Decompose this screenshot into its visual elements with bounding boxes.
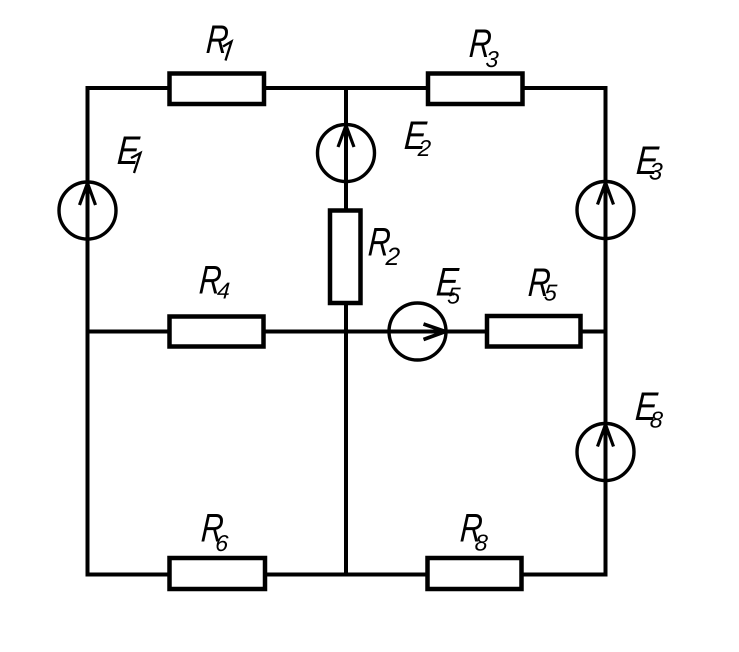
resistor R2 bbox=[330, 211, 361, 304]
svg-text:E: E bbox=[116, 129, 142, 173]
svg-text:5: 5 bbox=[447, 283, 462, 309]
svg-text:8: 8 bbox=[474, 530, 489, 556]
label R6 bbox=[199, 507, 230, 556]
resistor R1 bbox=[170, 74, 265, 105]
wire: top horizontal net bbox=[86, 86, 608, 90]
wire: left vertical branch bbox=[86, 86, 90, 577]
EMF source E2 bbox=[318, 125, 375, 182]
svg-text:5: 5 bbox=[543, 280, 558, 306]
label E5 bbox=[435, 261, 463, 309]
svg-text:3: 3 bbox=[648, 159, 664, 186]
label E3 bbox=[635, 139, 666, 185]
label R3 bbox=[467, 22, 501, 72]
wire: middle vertical branch bbox=[344, 86, 348, 577]
label R1 bbox=[205, 18, 230, 62]
svg-text:2: 2 bbox=[384, 243, 401, 271]
label E8 bbox=[634, 385, 666, 432]
resistor R6 bbox=[170, 558, 266, 589]
wire: middle horizontal net bbox=[86, 330, 608, 334]
label R5 bbox=[527, 261, 560, 305]
EMF source E5 bbox=[389, 303, 446, 360]
label E2 bbox=[403, 114, 434, 161]
label R4 bbox=[198, 259, 232, 304]
svg-text:6: 6 bbox=[214, 530, 229, 556]
svg-text:3: 3 bbox=[485, 46, 500, 72]
label R2 bbox=[366, 221, 402, 271]
svg-text:2: 2 bbox=[416, 135, 432, 161]
label R8 bbox=[459, 507, 491, 556]
resistor R4 bbox=[170, 317, 264, 347]
EMF source E3 bbox=[577, 182, 634, 239]
resistor R5 bbox=[487, 316, 581, 347]
EMF source E1 bbox=[59, 182, 116, 239]
wire: bottom horizontal net bbox=[86, 573, 608, 577]
resistor R8 bbox=[428, 558, 522, 589]
svg-text:8: 8 bbox=[649, 407, 664, 433]
EMF source E8 bbox=[577, 424, 634, 481]
svg-text:4: 4 bbox=[216, 278, 231, 304]
label E1 bbox=[116, 129, 142, 173]
resistor R3 bbox=[428, 74, 523, 105]
wire: right vertical branch bbox=[604, 86, 608, 577]
